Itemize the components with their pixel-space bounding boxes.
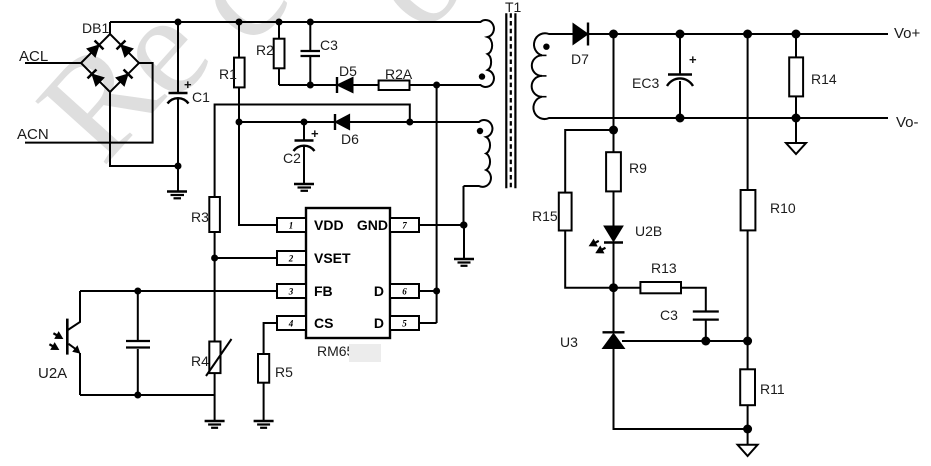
resistor R13 xyxy=(640,282,681,293)
wire bridge bottom to C1 ground node xyxy=(110,92,178,166)
diode D5 xyxy=(337,77,353,93)
svg-text:D6: D6 xyxy=(341,131,359,147)
node aux sense junction xyxy=(406,119,413,126)
svg-text:D: D xyxy=(374,283,384,299)
wire VDD line (line B) xyxy=(239,121,335,123)
transformer T1 aux winding xyxy=(464,120,493,187)
svg-text:R4: R4 xyxy=(191,353,209,369)
svg-text:R3: R3 xyxy=(191,209,209,225)
wire drain vertical xyxy=(436,85,438,323)
pin 1 xyxy=(277,218,306,232)
node pin6 drain junction xyxy=(433,288,440,295)
ground (R4) xyxy=(205,421,225,428)
ground (R5) xyxy=(254,421,274,428)
node D7 cathode junction xyxy=(609,30,618,39)
wire pin7 ground stub xyxy=(463,225,465,259)
wire pin5 xyxy=(419,322,437,324)
svg-text:Vo+: Vo+ xyxy=(894,25,921,42)
svg-text:R11: R11 xyxy=(760,381,785,397)
node C1 top junction xyxy=(175,19,182,26)
node aux return junction xyxy=(460,222,467,229)
svg-text:R5: R5 xyxy=(275,364,293,380)
svg-text:3: 3 xyxy=(288,287,294,297)
node R10 top junction xyxy=(743,30,752,39)
svg-text:VDD: VDD xyxy=(314,217,344,233)
wire ACN input xyxy=(25,63,153,143)
wire R2 branch xyxy=(278,22,280,39)
svg-text:ACL: ACL xyxy=(19,48,48,65)
svg-text:R15: R15 xyxy=(532,208,558,224)
wire C2 branch xyxy=(303,122,305,140)
svg-text:VSET: VSET xyxy=(314,250,351,266)
resistor R3 xyxy=(209,197,220,232)
svg-text:FB: FB xyxy=(314,283,333,299)
wire VSET vertical xyxy=(214,232,216,342)
capacitor C3 xyxy=(301,51,321,56)
wire secondary top to D7 xyxy=(558,33,573,35)
svg-text:R1: R1 xyxy=(219,66,237,82)
wire U2B to node xyxy=(613,242,615,332)
capacitor C1 xyxy=(168,93,189,104)
resistor R1 xyxy=(234,58,245,88)
svg-text:5: 5 xyxy=(402,319,407,329)
wire EC3 branch xyxy=(679,34,681,74)
resistor R5 xyxy=(258,354,269,383)
resistor R2A xyxy=(379,81,410,91)
svg-text:+: + xyxy=(689,52,697,67)
node U2B cathode junction xyxy=(609,283,618,292)
wire C3 branch xyxy=(309,22,311,51)
pin 2 xyxy=(277,251,306,265)
node GND junction xyxy=(461,222,468,229)
wire pin2 VSET xyxy=(215,257,277,259)
svg-text:Vo-: Vo- xyxy=(896,114,919,131)
diode D7 xyxy=(573,23,588,46)
svg-text:D7: D7 xyxy=(571,51,589,67)
wire FB cap branch xyxy=(137,291,139,341)
capacitor EC3 xyxy=(667,75,693,87)
svg-text:+: + xyxy=(311,126,319,141)
node R14 top junction xyxy=(792,30,801,39)
wire emitter bottom xyxy=(80,394,215,396)
node divider tap junction xyxy=(743,337,752,346)
svg-text:U2B: U2B xyxy=(635,223,662,239)
op-amp U1 RM65 controller IC xyxy=(306,208,390,338)
svg-text:EC3: EC3 xyxy=(632,75,659,91)
wire C1 branch xyxy=(177,22,179,93)
svg-text:7: 7 xyxy=(402,221,407,231)
wire ACL input xyxy=(25,62,81,64)
node C3 ref junction xyxy=(701,337,710,346)
pin 6 xyxy=(390,284,419,298)
node aux phase dot xyxy=(477,128,483,134)
wire U3 anode down xyxy=(614,349,748,430)
wire ref line xyxy=(622,340,748,342)
svg-text:DB1: DB1 xyxy=(82,20,109,36)
wire pin4 CS xyxy=(264,323,277,354)
node R14 bottom junction xyxy=(792,114,801,123)
svg-text:R9: R9 xyxy=(629,160,647,176)
wire R1 branch xyxy=(238,22,240,58)
resistor R15 xyxy=(559,193,572,231)
wire R11 branch xyxy=(747,341,749,369)
node primary phase dot xyxy=(479,73,485,79)
wire snubber line xyxy=(279,84,337,86)
node C3 bottom junction xyxy=(307,82,314,89)
svg-text:R13: R13 xyxy=(651,260,677,276)
ground (pin7) xyxy=(454,259,474,266)
node EC3 top junction xyxy=(676,30,685,39)
svg-text:C1: C1 xyxy=(192,89,210,105)
transformer T1 secondary winding xyxy=(532,33,560,119)
watermark xyxy=(8,0,496,189)
pin 3 xyxy=(277,284,306,298)
ground (C2) xyxy=(294,184,314,191)
wire pin3 FB xyxy=(80,290,277,292)
resistor R11 xyxy=(740,369,755,405)
node C2 top junction xyxy=(301,119,308,126)
resistor R4 (strike-through) xyxy=(209,342,220,374)
resistor R9 xyxy=(606,152,621,191)
svg-text:U3: U3 xyxy=(560,334,578,350)
wire R15 bottom link xyxy=(565,231,613,288)
wire R11 ground stub xyxy=(747,429,749,445)
node R11 bottom junction xyxy=(743,425,752,434)
wire pin6 xyxy=(419,290,437,292)
transformer T1 core xyxy=(506,13,515,188)
wire R4 to ground xyxy=(214,373,216,421)
wire Vo+ rail xyxy=(588,33,888,35)
wire top rail xyxy=(110,21,478,23)
wire R5 to ground xyxy=(263,383,265,421)
resistor R10 xyxy=(741,190,756,230)
wire VSET top link (line A) xyxy=(215,105,410,198)
svg-text:RM65: RM65 xyxy=(317,343,355,359)
diode DB1 lower-left xyxy=(88,70,105,87)
svg-text:R10: R10 xyxy=(770,200,796,216)
svg-text:D: D xyxy=(374,315,384,331)
wire aux winding bottom riser xyxy=(463,186,465,225)
wire bridge top riser xyxy=(109,22,111,34)
node EC3 bottom junction xyxy=(676,114,685,123)
node VDD junction R1 xyxy=(236,119,243,126)
ground (R11 open triangle) xyxy=(738,445,758,456)
svg-text:C2: C2 xyxy=(283,150,301,166)
svg-text:D5: D5 xyxy=(339,63,357,79)
capacitor C2 xyxy=(294,141,315,152)
wire R9 to U2B xyxy=(613,191,615,226)
svg-text:+: + xyxy=(184,77,192,92)
wire R14 ground stub xyxy=(795,118,797,143)
ground (C1) xyxy=(167,192,187,199)
wire D7 node vertical xyxy=(613,34,615,152)
node FB cap bottom junction xyxy=(134,392,141,399)
LED U2B optocoupler diode xyxy=(604,226,623,243)
bridge rectifier DB1 xyxy=(81,34,139,92)
svg-text:C3: C3 xyxy=(320,37,338,53)
pin 5 xyxy=(390,316,419,330)
svg-text:U2A: U2A xyxy=(38,365,67,382)
svg-text:R14: R14 xyxy=(811,71,837,87)
diode DB1 upper-left xyxy=(87,41,104,58)
svg-text:T1: T1 xyxy=(505,0,522,15)
node VSET junction xyxy=(211,255,218,262)
transformer T1 primary winding xyxy=(478,20,494,87)
node C3 top junction xyxy=(307,19,314,26)
svg-text:1: 1 xyxy=(289,221,294,231)
svg-text:CS: CS xyxy=(314,315,333,331)
wire C3 bottom xyxy=(705,321,707,342)
transistor U2A optocoupler phototransistor xyxy=(67,291,80,395)
svg-text:ACN: ACN xyxy=(17,126,49,143)
wire VDD pin1 riser xyxy=(239,122,277,225)
node drain junction xyxy=(433,82,440,89)
ground (R14 open triangle) xyxy=(786,143,806,154)
capacitor (FB filter) xyxy=(126,341,150,348)
node FB cap top junction xyxy=(134,288,141,295)
svg-text:6: 6 xyxy=(402,287,407,297)
diode D6 xyxy=(335,114,350,130)
wire R13 left xyxy=(614,287,641,289)
wire R10 branch xyxy=(747,34,749,190)
svg-text:4: 4 xyxy=(288,319,294,329)
wire Vo- rail xyxy=(558,117,888,119)
resistor R2 xyxy=(274,39,285,69)
pin 7 xyxy=(390,218,419,232)
node secondary phase dot xyxy=(543,44,549,50)
pin 4 xyxy=(277,316,306,330)
resistor R14 xyxy=(789,57,803,96)
diode DB1 lower-right xyxy=(116,70,133,87)
svg-text:C3: C3 xyxy=(660,307,678,323)
node R9 R15 junction xyxy=(609,126,618,135)
svg-text:R2: R2 xyxy=(256,42,274,58)
shunt regulator U3 xyxy=(603,332,625,348)
svg-text:2: 2 xyxy=(288,254,294,264)
diode DB1 upper-right xyxy=(117,41,134,58)
node C1 bottom junction xyxy=(175,163,182,170)
svg-text:GND: GND xyxy=(357,217,388,233)
svg-text:R2A: R2A xyxy=(385,66,413,82)
wire pin7 GND xyxy=(419,224,464,226)
wire R14 branch xyxy=(795,34,797,57)
wire R15 top link xyxy=(565,130,613,193)
capacitor C3 (secondary side) xyxy=(693,312,719,320)
node R1 top junction xyxy=(236,19,243,26)
node R2 top junction xyxy=(276,19,283,26)
wire R13 right to C3 xyxy=(681,288,706,311)
